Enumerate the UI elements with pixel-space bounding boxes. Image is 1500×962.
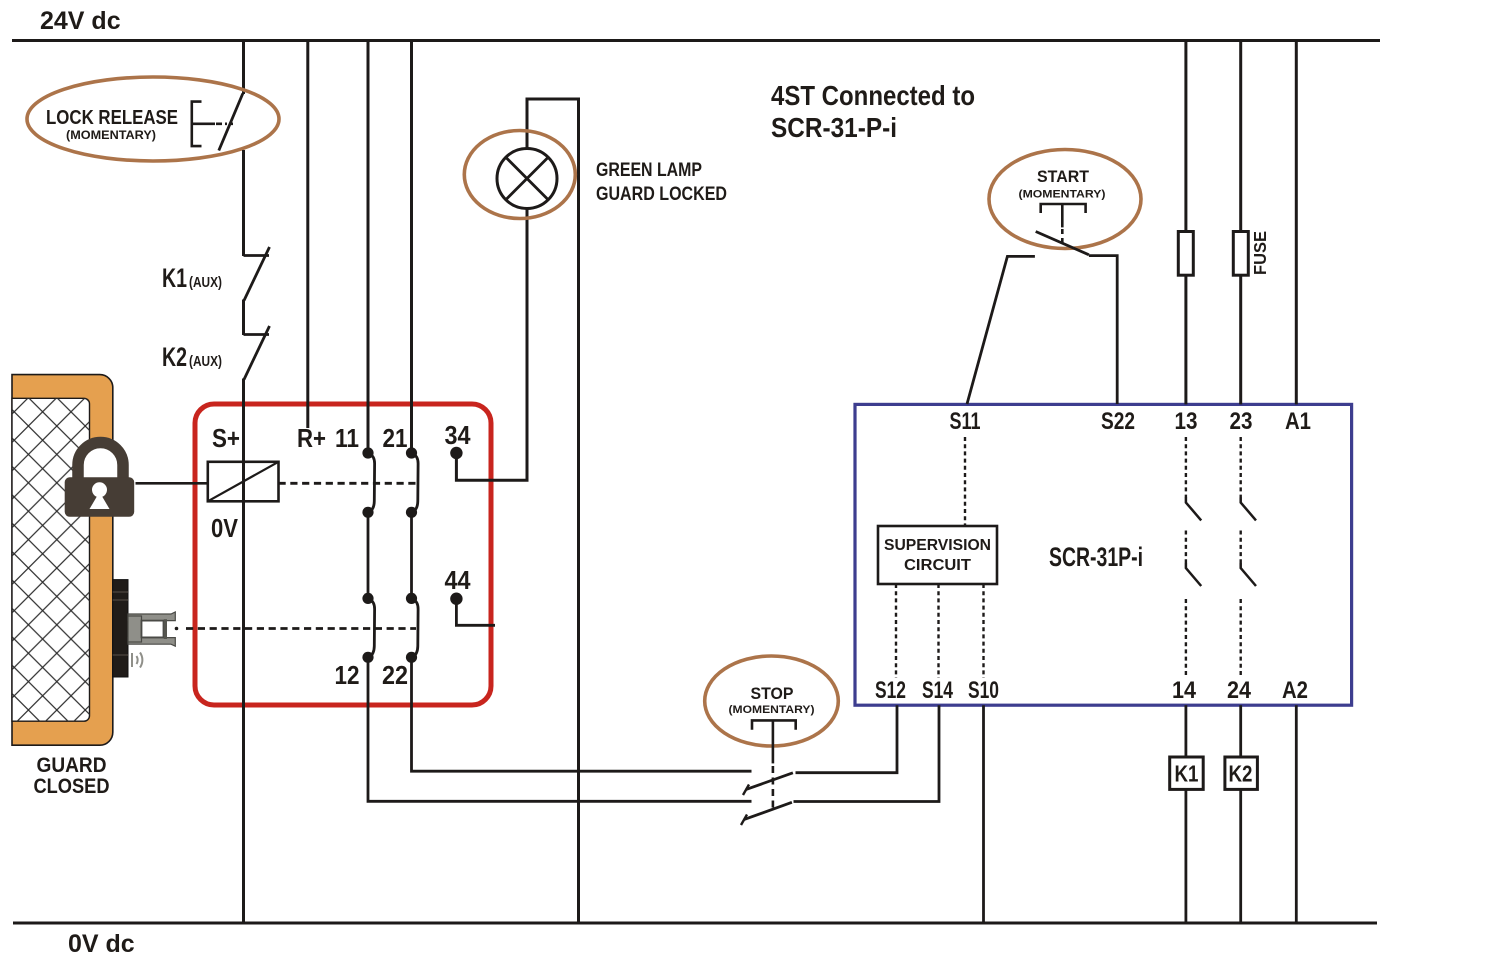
svg-text:4ST Connected to: 4ST Connected to — [771, 80, 975, 111]
pushbutton actuator bracket (stop) — [752, 720, 796, 729]
svg-text:CIRCUIT: CIRCUIT — [904, 557, 971, 574]
svg-text:S14: S14 — [922, 677, 953, 704]
mechanical link dashed (actuator to contacts) — [186, 627, 416, 630]
fuse F2 — [1233, 232, 1248, 276]
contact column 21-22 — [406, 447, 418, 663]
start stem dash — [1061, 229, 1064, 247]
padlock body — [65, 477, 135, 517]
svg-text:K2: K2 — [162, 342, 187, 372]
interlock actuator tongue — [128, 612, 175, 646]
svg-text:STOP: STOP — [751, 684, 794, 703]
dashed supervision to S14 — [937, 584, 939, 678]
svg-text:34: 34 — [445, 420, 471, 450]
wire 24 to K2 coil — [1239, 705, 1242, 757]
wire K2 coil to bottom bus — [1239, 789, 1242, 923]
wire A2 to bottom bus — [1295, 705, 1298, 923]
svg-text:FUSE: FUSE — [1250, 231, 1270, 275]
wire 23 drop from bus — [1239, 40, 1242, 232]
wire START left terminal to S11 — [967, 256, 1035, 404]
interlock switch body — [113, 580, 128, 677]
wire lamp loop top — [527, 99, 579, 923]
svg-text:S10: S10 — [968, 677, 999, 704]
sound waves icon — [132, 653, 142, 668]
svg-text:(MOMENTARY): (MOMENTARY) — [1019, 189, 1106, 201]
svg-text:K2: K2 — [1229, 761, 1253, 787]
wire fuse F1 to terminal 13 — [1184, 275, 1187, 404]
relay contact chain 23-24 — [1241, 437, 1256, 675]
svg-text:12: 12 — [335, 660, 360, 690]
wire 14 to K1 coil — [1185, 705, 1188, 757]
pushbutton START ellipse — [989, 150, 1141, 249]
mechanical link dashed (solenoid to contacts) — [279, 482, 417, 485]
svg-text:(MOMENTARY): (MOMENTARY) — [66, 128, 156, 142]
STOP lower blade — [744, 802, 792, 819]
lamp label — [596, 159, 727, 205]
svg-text:R+: R+ — [297, 423, 326, 453]
svg-text:(AUX): (AUX) — [189, 353, 222, 370]
svg-text:LOCK RELEASE: LOCK RELEASE — [46, 107, 178, 129]
guard frame (orange) — [12, 375, 113, 746]
relay coil K2 — [1225, 757, 1258, 789]
pushbutton STOP ellipse — [705, 656, 839, 746]
lock switch red outline box — [195, 404, 491, 705]
svg-text:GREEN LAMP: GREEN LAMP — [596, 159, 702, 181]
start actuator stem — [1061, 204, 1064, 227]
guard mesh window — [12, 398, 90, 721]
wire K1 coil to bottom bus — [1185, 789, 1188, 923]
wire lamp bottom to contact 34 — [456, 207, 527, 480]
wire contact column 11 drop from bus — [367, 40, 370, 453]
guard mesh crosshatch — [12, 398, 90, 721]
svg-text:S22: S22 — [1101, 408, 1135, 435]
node 44 dot and stub — [450, 593, 495, 626]
indicator lamp GREEN LAMP — [464, 131, 575, 219]
wire padlock to solenoid — [136, 482, 209, 485]
wire 0V dc bottom bus — [13, 922, 1377, 925]
mechanical link dashed (stop) — [772, 720, 775, 763]
padlock keyhole — [92, 482, 107, 497]
wire STOP upper contact to S12 — [796, 705, 898, 773]
wire fuse F2 to terminal 23 — [1239, 275, 1242, 404]
padlock shackle — [78, 443, 123, 479]
wire lock-release branch drop from bus — [242, 40, 245, 94]
contact column 11-12 — [362, 447, 374, 663]
dashed supervision to S10 — [982, 584, 984, 678]
svg-text:SCR-31-P-i: SCR-31-P-i — [771, 112, 897, 143]
relay coil K1 — [1170, 757, 1204, 789]
svg-text:0V: 0V — [211, 513, 239, 543]
wire R+ drop from bus — [306, 40, 309, 428]
wire S10 to bottom bus — [982, 705, 985, 923]
wire 12 to STOP lower contact — [368, 657, 752, 801]
svg-text:24V dc: 24V dc — [40, 7, 121, 35]
mechanical link dash (lock release) — [216, 123, 233, 126]
svg-text:GUARD LOCKED: GUARD LOCKED — [596, 183, 727, 205]
wire STOP lower contact to S14 — [794, 705, 940, 801]
supervision circuit block — [878, 526, 997, 584]
wire A1 drop from bus — [1295, 40, 1298, 404]
svg-text:A2: A2 — [1282, 677, 1308, 704]
svg-text:13: 13 — [1175, 408, 1198, 435]
dashed supervision to S12 — [895, 584, 897, 678]
svg-text:23: 23 — [1230, 408, 1253, 435]
safety relay SCR-31P-i box — [855, 404, 1352, 705]
switch blade NO contact (lock release) — [219, 94, 243, 151]
svg-text:44: 44 — [445, 565, 471, 595]
svg-text:SCR-31P-i: SCR-31P-i — [1049, 542, 1143, 572]
mechanical link dot at actuator — [175, 627, 179, 631]
pushbutton LOCK RELEASE ellipse — [27, 77, 279, 161]
wire 24V dc top bus — [12, 39, 1380, 42]
svg-text:22: 22 — [382, 660, 408, 690]
svg-text:SUPERVISION: SUPERVISION — [884, 537, 991, 554]
wire between lock release and K1 aux — [242, 150, 245, 256]
solenoid coil symbol — [208, 462, 279, 502]
relay contact chain 13-14 — [1186, 437, 1201, 675]
svg-text:START: START — [1037, 167, 1090, 186]
svg-text:21: 21 — [383, 423, 408, 453]
wire 13 drop from bus — [1184, 40, 1187, 232]
pushbutton actuator bracket (lock release) — [192, 102, 215, 147]
wire START right terminal to S22 — [1089, 256, 1117, 404]
svg-text:K1: K1 — [162, 263, 187, 293]
svg-text:CLOSED: CLOSED — [34, 775, 110, 798]
svg-text:GUARD: GUARD — [37, 754, 107, 777]
START blade — [1036, 232, 1089, 255]
svg-text:K1: K1 — [1175, 761, 1199, 787]
svg-text:S+: S+ — [212, 423, 240, 453]
wire contact column 21 drop from bus — [410, 40, 413, 453]
svg-text:(AUX): (AUX) — [189, 274, 222, 291]
svg-text:(MOMENTARY): (MOMENTARY) — [729, 704, 815, 716]
wire 22 to STOP upper contact — [412, 657, 752, 771]
svg-text:14: 14 — [1172, 677, 1197, 704]
STOP upper blade — [746, 773, 793, 790]
wire K2 through solenoid to bottom bus — [242, 379, 245, 924]
svg-text:0V dc: 0V dc — [68, 930, 135, 958]
svg-text:S11: S11 — [950, 408, 981, 435]
wire between K1 and K2 aux — [242, 300, 245, 336]
pushbutton actuator bracket (start) — [1041, 204, 1086, 213]
svg-text:S12: S12 — [875, 677, 906, 704]
svg-text:A1: A1 — [1285, 408, 1311, 435]
svg-text:11: 11 — [335, 423, 359, 453]
svg-text:24: 24 — [1227, 677, 1252, 704]
fuse F1 — [1178, 232, 1193, 276]
node 34 dot — [450, 447, 462, 459]
dashed S11 to supervision — [964, 437, 966, 526]
contact K1(AUX) — [162, 247, 270, 301]
contact K2(AUX) — [162, 326, 270, 380]
GUARD CLOSED label — [34, 754, 110, 798]
